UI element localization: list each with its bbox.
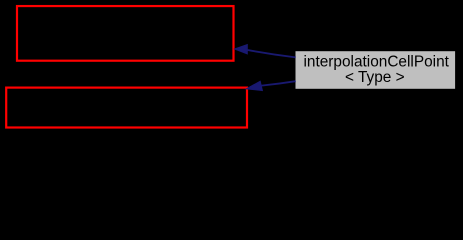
edge arrow to box2 (inheritance, midnightblue)	[246, 81, 295, 90]
edge arrow to box1 (inheritance, midnightblue)	[235, 45, 296, 58]
node interpolationCellPoint< Type > (grey current node)	[295, 51, 456, 90]
svg-text:< Type >: < Type >	[345, 69, 405, 86]
svg-text:interpolationCellPoint: interpolationCellPoint	[303, 53, 449, 70]
node box2 (red truncated class, bottom-left)	[6, 88, 247, 128]
node box1 (red truncated class, top-left)	[17, 6, 234, 61]
